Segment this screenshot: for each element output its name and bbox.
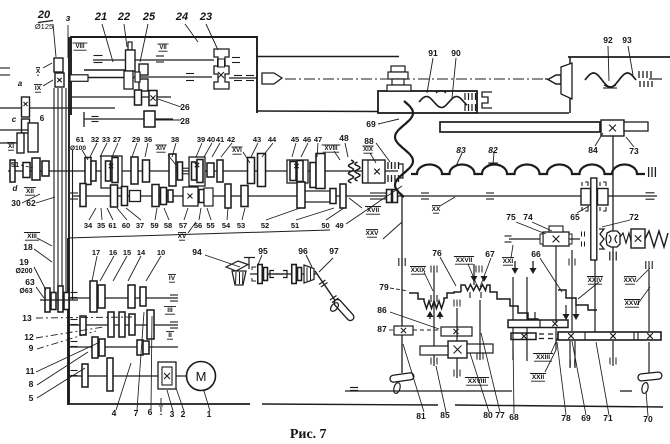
vertical shafts x556 x572 x593 [555, 246, 557, 323]
svg-text:42: 42 [227, 135, 235, 144]
svg-text:32: 32 [91, 135, 99, 144]
universal joint diagonal 97 [315, 271, 341, 309]
svg-text:76: 76 [432, 248, 442, 258]
svg-text:VIII: VIII [75, 44, 84, 50]
rack bar right part [624, 122, 648, 131]
svg-text:XI: XI [8, 143, 14, 150]
long gear bar 71 with X marks [558, 332, 661, 340]
leaders bottom right numbers [403, 344, 424, 412]
gear 36 [143, 160, 150, 182]
table staircase down right [503, 299, 548, 325]
svg-text:51: 51 [291, 221, 299, 230]
svg-text:92: 92 [603, 35, 613, 45]
leader XXIX XXVII XXIV XXV XXVI XXI [424, 272, 433, 291]
clutch block 88 with x [363, 160, 386, 183]
hatch 93 [638, 71, 640, 78]
svg-text:14: 14 [137, 248, 146, 257]
gear 29 [131, 157, 138, 184]
leader XVII XX [349, 198, 362, 208]
housing: work support box (90,91) [378, 91, 477, 113]
leader 26 28 [158, 99, 181, 107]
svg-text:Рис.: Рис. [290, 427, 316, 442]
svg-text:55: 55 [206, 221, 214, 230]
lower pulleys [45, 288, 50, 312]
svg-text:73: 73 [629, 146, 639, 156]
svg-text:94: 94 [192, 247, 202, 257]
svg-text:56: 56 [194, 221, 202, 230]
svg-text:XXI: XXI [503, 258, 514, 265]
gearbox bar 87 [394, 326, 413, 335]
housing: feed gearbox bottom-left box [67, 238, 69, 405]
svg-text:XXV: XXV [623, 277, 637, 284]
work area top line [257, 56, 399, 58]
clutch block row2 [183, 187, 198, 206]
svg-text:37: 37 [136, 221, 144, 230]
svg-text:25: 25 [142, 11, 156, 23]
svg-text:67: 67 [485, 249, 495, 259]
gear 44 [258, 154, 266, 187]
gear 28 [144, 111, 155, 127]
leaders bottom numbers of box2 [116, 363, 131, 410]
shaft XV line [72, 195, 657, 197]
shaft III gears [80, 316, 86, 335]
slip coupling hatches [387, 162, 389, 169]
svg-text:95: 95 [258, 246, 268, 256]
svg-text:XXV: XXV [365, 230, 379, 237]
left edge stub dashes [0, 67, 10, 69]
svg-text:a: a [18, 79, 23, 88]
vertical shaft XXVII with hatch [473, 264, 475, 285]
leaders row y140 to gears [90, 143, 97, 157]
shaft IV line [68, 297, 178, 299]
svg-text:93: 93 [622, 35, 632, 45]
svg-text:Ø125: Ø125 [35, 22, 53, 31]
svg-text:XVII: XVII [367, 207, 379, 214]
clamp stack above box [391, 66, 405, 72]
gear bar 68 with X [511, 333, 536, 340]
svg-text:XXVI: XXVI [625, 300, 640, 307]
shaft stub y108 [0, 107, 115, 109]
svg-text:87: 87 [377, 324, 387, 334]
vertical shaft XXV down to handwheel 81 [401, 196, 403, 373]
svg-text:1: 1 [207, 409, 212, 419]
worm drive 72 [591, 178, 597, 260]
svg-text:XXIX: XXIX [411, 267, 426, 274]
shaft VII lower stub [71, 96, 171, 98]
svg-text:6: 6 [148, 407, 153, 417]
svg-text:24: 24 [175, 11, 188, 23]
rack bar [440, 122, 600, 132]
svg-text:84: 84 [588, 145, 598, 155]
svg-text:45: 45 [291, 135, 299, 144]
clutch block 27 [101, 156, 122, 188]
clutch block 45-46 [287, 160, 308, 183]
tick 82 [487, 164, 499, 166]
svg-text:65: 65 [570, 212, 580, 222]
row2 bearing hatches [370, 192, 378, 194]
jaw clutch 48 zigzag pair [348, 160, 353, 183]
handwheel 81 [390, 372, 415, 382]
row2 sleeve [130, 191, 141, 202]
gearbox bar 86 [441, 327, 472, 336]
spindle line [229, 77, 258, 79]
svg-text:44: 44 [268, 135, 277, 144]
cross feed box with X [448, 341, 467, 358]
motor M [187, 362, 216, 391]
svg-text:43: 43 [253, 135, 261, 144]
svg-text:XIX: XIX [363, 147, 373, 153]
spring pack 91 [464, 93, 466, 100]
svg-text:53: 53 [237, 221, 245, 230]
leaders 83 82 84 73 [456, 153, 462, 166]
pulley on shaft X [54, 58, 63, 72]
svg-text:75: 75 [506, 212, 516, 222]
svg-text:7: 7 [320, 427, 327, 442]
bevel cone 96 [304, 265, 314, 283]
leader 79 86 87 [390, 288, 408, 291]
worm clutch block with up teeth [461, 285, 503, 300]
gear 6 [28, 123, 38, 152]
bevel pair 95 [258, 265, 263, 284]
svg-text:50: 50 [321, 221, 329, 230]
vertical shaft x480 [479, 300, 481, 360]
svg-text:28: 28 [180, 116, 190, 126]
leader XXII XXIII [551, 337, 558, 353]
leaders 69 88 48 [378, 119, 399, 124]
svg-text:41: 41 [216, 135, 224, 144]
left gear pair on shaft a [22, 97, 30, 117]
vertical shaft XXIX [433, 266, 435, 366]
svg-text:XXVII: XXVII [456, 257, 473, 264]
svg-text:9: 9 [29, 343, 34, 353]
svg-text:XXIV: XXIV [588, 277, 603, 284]
flexible shaft 69 vertical wave [395, 101, 413, 197]
table hob-slide block with jaw teeth [409, 292, 461, 309]
svg-text:40: 40 [207, 135, 215, 144]
svg-text:46: 46 [303, 135, 311, 144]
svg-text:15: 15 [123, 248, 131, 257]
svg-text:7: 7 [134, 408, 139, 418]
down arrows above bar2 [565, 305, 567, 315]
shaft stub y119 with T end [84, 118, 173, 120]
verticals below bars [512, 328, 514, 360]
shaft I gears [82, 364, 88, 387]
svg-text:71: 71 [603, 413, 613, 423]
shaft I line [68, 375, 158, 377]
svg-text:77: 77 [495, 410, 505, 420]
table profile right part [558, 290, 597, 310]
vertical shaft through 86 to cross box [456, 308, 458, 378]
svg-text:c: c [12, 115, 17, 124]
svg-text:23: 23 [199, 11, 212, 23]
svg-text:Ø200: Ø200 [15, 268, 32, 275]
bars left and right of cross box [420, 346, 448, 355]
leaders left margin numbers [34, 249, 52, 262]
svg-text:11: 11 [26, 366, 35, 376]
flexible shaft 82-83 horizontal hump line [411, 165, 645, 175]
bevel gear 94 cone [232, 271, 246, 285]
gear on shaft VII [135, 90, 142, 105]
svg-text:XXVIII: XXVIII [468, 378, 487, 385]
bearing bracket before wave [398, 164, 403, 178]
leader lines top numbers [53, 24, 56, 57]
gear 38 tall [169, 154, 176, 186]
svg-text:96: 96 [298, 246, 308, 256]
svg-text:49: 49 [335, 221, 343, 230]
svg-text:58: 58 [164, 221, 172, 230]
svg-text:6: 6 [40, 114, 45, 123]
svg-text:66: 66 [531, 249, 541, 259]
svg-text:52: 52 [261, 221, 269, 230]
svg-text:90: 90 [451, 48, 461, 58]
svg-text:I: I [160, 407, 162, 414]
gears after wall row1 [85, 158, 91, 185]
row2 gear pair right [387, 190, 392, 203]
leaders row y225 up to gears [89, 208, 96, 220]
bevel gear 94 top bar [226, 261, 248, 271]
gear 47 pair tall [310, 163, 316, 188]
tailstock body [561, 63, 572, 99]
svg-text:57: 57 [179, 221, 187, 230]
housing: speed gearbox top-left [71, 37, 257, 115]
svg-text:Ø63: Ø63 [19, 288, 32, 295]
link coupling [270, 271, 274, 278]
svg-text:20: 20 [37, 9, 51, 21]
svg-text:60: 60 [122, 221, 130, 230]
row2 right end bearing [646, 192, 655, 194]
pulley on shaft IX [55, 73, 64, 87]
clutch block 39-42 [189, 157, 205, 186]
svg-text:19: 19 [19, 257, 29, 267]
svg-text:2: 2 [181, 409, 186, 419]
apron bar with X [508, 320, 568, 328]
shaft II gears [92, 337, 98, 358]
bevel shaft line [250, 273, 316, 275]
svg-text:54: 54 [222, 221, 231, 230]
svg-text:XII: XII [26, 188, 34, 195]
svg-text:70: 70 [643, 414, 653, 424]
svg-text:21: 21 [94, 11, 107, 23]
svg-text:18: 18 [23, 242, 33, 252]
end hatch of wave [648, 167, 650, 177]
workpiece arbor bullet [262, 73, 282, 84]
bevel pair 96a [292, 265, 297, 284]
svg-text:VII: VII [159, 45, 167, 51]
tick above 94 [248, 257, 250, 269]
svg-text:II: II [168, 332, 172, 339]
dashes 87 to 86 [413, 329, 441, 331]
svg-text:72: 72 [629, 212, 639, 222]
svg-text:XXII: XXII [532, 374, 544, 381]
wave 90 in box [419, 97, 467, 108]
leader XV XIX XIV XVI XVIII [188, 222, 196, 233]
svg-text:97: 97 [329, 246, 339, 256]
svg-text:XIII: XIII [27, 233, 37, 240]
coupling 26 [149, 91, 157, 106]
svg-text:38: 38 [171, 135, 179, 144]
svg-text:Ø100: Ø100 [70, 145, 86, 152]
svg-text:XXIII: XXIII [536, 354, 550, 361]
gearbox 73 on rack [601, 120, 624, 136]
spindle dash-dot centre line [285, 78, 548, 80]
gear 22 with flange [128, 42, 132, 50]
svg-text:III: III [167, 307, 173, 314]
work area bottom line [257, 110, 378, 113]
gear 21 sliding block on spindle [84, 69, 126, 71]
row2 sleeve under 45 [303, 191, 335, 202]
row2 gears mid [152, 185, 159, 207]
svg-text:IV: IV [169, 275, 176, 282]
svg-text:34: 34 [84, 221, 93, 230]
leader 76 67 66 [440, 257, 456, 286]
svg-text:8: 8 [29, 379, 34, 389]
svg-text:XX: XX [432, 206, 441, 213]
svg-text:61: 61 [76, 135, 84, 144]
leader 49 and XXV [346, 186, 402, 224]
baseline bed lines [262, 404, 438, 405]
svg-text:80: 80 [483, 410, 493, 420]
tailstock centre arrow [548, 75, 561, 84]
housing: tall left wall [68, 37, 70, 404]
coupling 2-3 box [158, 362, 176, 389]
svg-text:IX: IX [35, 85, 42, 92]
differential 75-74 box [509, 238, 543, 240]
index gear block 65 [581, 189, 591, 206]
shaft VIII line [93, 59, 214, 61]
svg-text:3: 3 [170, 409, 175, 419]
up arrows under table [429, 312, 431, 319]
svg-text:22: 22 [117, 11, 130, 23]
shaft II line [68, 346, 178, 348]
svg-text:36: 36 [144, 135, 152, 144]
svg-text:5: 5 [29, 393, 34, 403]
svg-text:63: 63 [25, 277, 35, 287]
svg-text:12: 12 [24, 332, 34, 342]
svg-text:69: 69 [366, 119, 376, 129]
shaft c line [0, 142, 21, 144]
down arrows left pair [514, 261, 516, 269]
housing: top right box (92,93) [568, 56, 670, 58]
svg-text:26: 26 [180, 102, 190, 112]
verticals above apron bar [512, 277, 514, 320]
svg-text:d: d [13, 184, 19, 193]
gear block 23 double clutch [214, 49, 229, 89]
shaft VII line in box [134, 76, 212, 78]
svg-text:X: X [36, 68, 41, 75]
shaft IV gears [90, 281, 97, 312]
row2 gear 51 [241, 186, 248, 207]
svg-text:39: 39 [197, 135, 205, 144]
svg-text:47: 47 [314, 135, 322, 144]
shaft XIV line [8, 170, 398, 172]
vertical shaft from 73 [612, 136, 614, 333]
svg-text:62: 62 [26, 198, 36, 208]
svg-text:XVIII: XVIII [324, 146, 337, 152]
shaft b line [0, 129, 30, 131]
svg-text:з: з [66, 13, 71, 23]
svg-text:13: 13 [22, 313, 32, 323]
svg-text:69: 69 [581, 413, 591, 423]
strike through 20 [38, 21, 53, 23]
svg-text:33: 33 [102, 135, 110, 144]
svg-text:91: 91 [428, 48, 438, 58]
row2 gear 52 [225, 184, 231, 208]
svg-text:17: 17 [92, 248, 100, 257]
hatch on shaft near 87 [398, 258, 400, 266]
svg-text:82: 82 [488, 145, 498, 155]
belt lines down [53, 88, 55, 292]
double dashes to bar2 [539, 333, 558, 335]
svg-text:29: 29 [132, 135, 140, 144]
svg-text:74: 74 [523, 212, 533, 222]
svg-text:XVI: XVI [232, 148, 242, 154]
svg-text:XIV: XIV [156, 146, 166, 152]
svg-text:10: 10 [157, 248, 165, 257]
wave 92 in top right box [585, 73, 636, 87]
gear on c [17, 133, 24, 153]
svg-text:79: 79 [379, 282, 389, 292]
svg-text:27: 27 [113, 135, 121, 144]
handwheel 70 [638, 372, 663, 381]
leaders 17 16 15 14 10 [92, 256, 97, 281]
row2 gears left [80, 184, 86, 207]
svg-text:88: 88 [364, 136, 374, 146]
handle knob 97 [333, 298, 356, 322]
gears far left on XIV [10, 160, 15, 182]
frame line to tailstock [477, 112, 569, 114]
svg-text:51: 51 [11, 160, 19, 169]
svg-text:68: 68 [509, 412, 519, 422]
svg-text:78: 78 [561, 413, 571, 423]
gear 43 [248, 158, 255, 184]
label leaders X IX [43, 63, 52, 68]
C-bracket [482, 92, 492, 108]
svg-text:86: 86 [377, 305, 387, 315]
cone gear cluster 25 [124, 71, 133, 89]
leaders 75 74 65 72 [516, 222, 546, 234]
svg-text:48: 48 [339, 133, 349, 143]
leaders 94-97 [205, 255, 240, 267]
svg-text:61: 61 [108, 221, 116, 230]
svg-text:85: 85 [440, 410, 450, 420]
svg-text:М: М [196, 369, 207, 384]
svg-text:30: 30 [11, 198, 21, 208]
svg-text:59: 59 [150, 221, 158, 230]
svg-text:XV: XV [178, 233, 187, 240]
down arrows into teeth [471, 276, 478, 282]
svg-text:16: 16 [109, 248, 117, 257]
svg-text:83: 83 [456, 145, 466, 155]
shaft III line [68, 324, 178, 326]
vertical to handwheel 70 [648, 270, 650, 331]
svg-text:81: 81 [416, 411, 426, 421]
svg-text:4: 4 [112, 408, 117, 418]
svg-text:35: 35 [97, 221, 105, 230]
